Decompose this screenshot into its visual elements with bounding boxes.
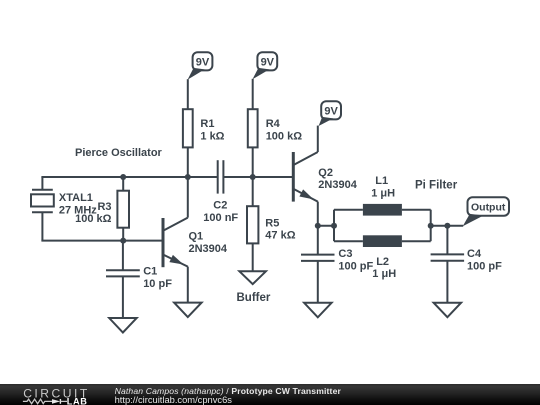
svg-text:100 kΩ: 100 kΩ: [266, 131, 303, 143]
svg-text:Pierce Oscillator: Pierce Oscillator: [75, 147, 163, 159]
node junction R3 bottom / C1 top: [120, 238, 126, 244]
svg-text:Pi Filter: Pi Filter: [415, 179, 458, 191]
svg-text:Q1: Q1: [189, 230, 204, 242]
svg-text:9V: 9V: [196, 56, 210, 68]
svg-text:R4: R4: [266, 118, 281, 130]
svg-text:C2: C2: [213, 199, 227, 211]
power flag 9V (Q2): [321, 101, 341, 119]
power flag 9V (R4): [252, 79, 254, 109]
node junction R4 bottom / R5 top: [250, 174, 256, 180]
resistor R3: [122, 177, 124, 191]
node junction R1 bottom: [185, 174, 191, 180]
wire top net horizontal (right of C2): [223, 176, 293, 178]
svg-text:R5: R5: [265, 217, 279, 229]
ground (R5 / buffer): [239, 271, 266, 284]
node junction C4 top: [444, 223, 450, 229]
svg-text:1 μH: 1 μH: [372, 268, 396, 280]
wire from L1 right: [402, 209, 431, 211]
svg-text:Output: Output: [471, 202, 506, 214]
wire bottom net riser: [41, 212, 43, 240]
node junction R3 top: [120, 174, 126, 180]
resistor R5: [247, 206, 258, 243]
svg-text:L1: L1: [375, 175, 388, 187]
transistor Q2 2N3904: [317, 126, 319, 152]
ground (Q1 emitter): [174, 303, 202, 318]
power flag 9V (R1): [187, 79, 189, 109]
svg-text:L2: L2: [376, 256, 389, 268]
svg-text:C3: C3: [338, 248, 352, 260]
svg-text:47 kΩ: 47 kΩ: [265, 230, 295, 242]
capacitor C2: [217, 160, 219, 193]
capacitor C4: [446, 226, 448, 255]
svg-text:100 pF: 100 pF: [338, 261, 373, 273]
crystal XTAL1: [32, 189, 53, 191]
wire top net left riser: [41, 177, 43, 190]
ground (C1): [109, 318, 137, 333]
output flag: [468, 197, 510, 215]
svg-text:XTAL1: XTAL1: [59, 192, 93, 204]
svg-text:2N3904: 2N3904: [189, 243, 228, 255]
svg-text:C1: C1: [143, 266, 157, 278]
capacitor C1: [122, 241, 124, 271]
svg-text:Buffer: Buffer: [237, 292, 271, 304]
wire bottom net horizontal: [41, 240, 162, 242]
wire to output: [431, 225, 464, 227]
wire left branch vertical: [333, 210, 335, 242]
transistor Q1 2N3904: [162, 218, 165, 267]
resistor R1: [183, 109, 193, 147]
wire from L2 right: [402, 240, 431, 242]
wire pi-filter left link: [318, 225, 334, 227]
svg-text:1 μH: 1 μH: [371, 187, 395, 199]
resistor R4: [248, 109, 258, 147]
wire right branch vertical: [430, 210, 432, 242]
wire to L2 left: [334, 240, 363, 242]
svg-text:9V: 9V: [261, 56, 275, 68]
inductor L1: [363, 204, 402, 216]
capacitor C3: [317, 226, 319, 255]
svg-text:100 kΩ: 100 kΩ: [75, 213, 112, 225]
wire to L1 left: [334, 209, 363, 211]
ground (C3): [304, 303, 332, 318]
svg-text:R3: R3: [97, 201, 111, 213]
svg-text:LAB: LAB: [67, 397, 88, 405]
svg-text:9V: 9V: [324, 105, 338, 117]
node junction pi filter right: [428, 223, 434, 229]
svg-text:2N3904: 2N3904: [318, 179, 357, 191]
svg-text:1 kΩ: 1 kΩ: [200, 131, 224, 143]
svg-text:C4: C4: [467, 248, 482, 260]
CircuitLab logo diode: [52, 399, 60, 404]
svg-text:Q2: Q2: [318, 167, 333, 179]
svg-text:10 pF: 10 pF: [143, 278, 172, 290]
svg-text:100 nF: 100 nF: [203, 212, 238, 224]
CircuitLab logo resistor zigzag: [23, 399, 52, 404]
ground (C4): [434, 303, 462, 318]
node junction Q2 emitter / C3: [315, 223, 321, 229]
inductor L2: [363, 235, 402, 247]
node junction pi filter left: [331, 223, 337, 229]
wire top net horizontal (left of C2): [41, 176, 217, 178]
svg-text:100 pF: 100 pF: [467, 261, 502, 273]
svg-text:R1: R1: [200, 118, 214, 130]
